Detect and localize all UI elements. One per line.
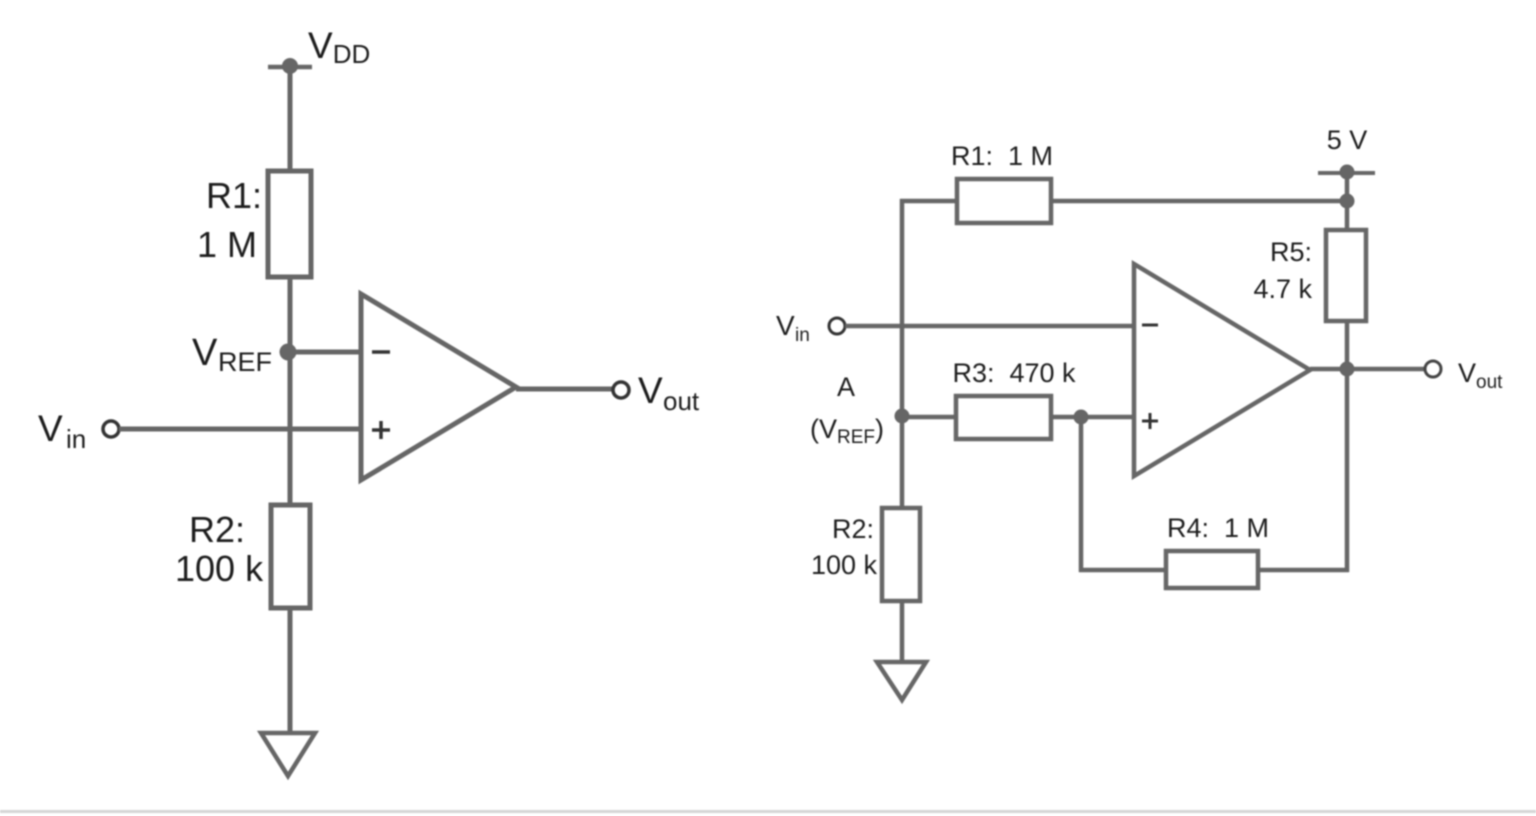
- terminal Vin: [829, 318, 845, 334]
- wire R2 to ground: [900, 601, 905, 663]
- wire node A to R3: [902, 415, 956, 420]
- wire R4 right to output branch: [1258, 568, 1349, 573]
- svg-text:V: V: [638, 370, 663, 411]
- svg-text:in: in: [66, 424, 86, 454]
- svg-text:R2:: R2:: [832, 514, 874, 544]
- op-amp U2: [1134, 264, 1310, 476]
- power 5V symbol: [1318, 165, 1375, 180]
- node A junction dot: [895, 409, 910, 424]
- resistor R5: [1326, 230, 1366, 321]
- wire VREF to op-amp inverting input: [288, 350, 363, 355]
- wire Vin to op-amp inverting input: [845, 324, 1134, 329]
- wire junction down to R4 level: [1079, 417, 1084, 572]
- pin label minus U1: [372, 350, 390, 354]
- wire to R4 left: [1079, 568, 1166, 573]
- op-amp U1: [361, 294, 516, 480]
- wire R1 right to 5V junction: [1051, 199, 1347, 204]
- wire op-amp output to Vout: [1310, 367, 1425, 372]
- wire to R1 left: [900, 199, 957, 204]
- resistor R2: [882, 508, 920, 601]
- resistor R2: [271, 505, 310, 608]
- wire R3 to op-amp non-inverting input: [1051, 415, 1134, 420]
- bottom separator line: [0, 810, 1536, 813]
- svg-text:V: V: [1458, 358, 1476, 388]
- svg-text:in: in: [795, 325, 810, 346]
- svg-text:V: V: [776, 310, 795, 341]
- terminal Vout: [1425, 361, 1441, 377]
- svg-text:R5:: R5:: [1270, 237, 1312, 267]
- resistor R3: [956, 396, 1051, 439]
- ground: [261, 733, 315, 776]
- terminal Vout: [613, 382, 629, 398]
- svg-text:V: V: [38, 408, 63, 449]
- wire left vertical Vin branch: [900, 199, 905, 509]
- svg-text:V: V: [192, 332, 218, 374]
- node VREF junction dot: [280, 344, 297, 361]
- svg-text:R2:: R2:: [189, 509, 245, 550]
- svg-text:R3: 470 k: R3: 470 k: [952, 358, 1076, 388]
- wire R5 to output junction to R4 corner: [1345, 321, 1350, 572]
- pin label plus U1: [372, 421, 390, 439]
- resistor R1: [957, 179, 1051, 223]
- power VDD symbol: [268, 58, 312, 74]
- wire Vin to op-amp non-inverting input: [119, 427, 363, 432]
- svg-text:100 k: 100 k: [175, 548, 264, 589]
- svg-text:5 V: 5 V: [1327, 125, 1368, 155]
- svg-text:out: out: [663, 386, 700, 416]
- svg-text:R4: 1 M: R4: 1 M: [1167, 513, 1269, 543]
- terminal Vin: [103, 421, 119, 437]
- svg-text:100 k: 100 k: [811, 550, 878, 580]
- svg-text:1 M: 1 M: [197, 224, 257, 265]
- svg-text:R1:: R1:: [206, 175, 262, 216]
- svg-text:REF: REF: [218, 347, 272, 377]
- junction dot output node: [1340, 362, 1355, 377]
- wire R1 to R2: [288, 277, 293, 507]
- svg-text:R1: 1 M: R1: 1 M: [951, 141, 1053, 171]
- junction dot R3/R4: [1074, 410, 1089, 425]
- pin label plus U2: [1142, 413, 1158, 429]
- resistor R4: [1166, 551, 1258, 588]
- wire op-amp output to Vout: [516, 387, 612, 392]
- svg-text:out: out: [1476, 372, 1503, 393]
- svg-text:A: A: [837, 372, 855, 402]
- ground: [877, 662, 926, 700]
- wire VDD to R1: [288, 67, 293, 173]
- wire 5V to R5: [1345, 173, 1350, 232]
- junction dot R1/5V: [1340, 194, 1355, 209]
- pin label minus U2: [1142, 324, 1158, 327]
- wire R2 to ground: [288, 608, 293, 734]
- resistor R1: [268, 171, 311, 277]
- svg-text:4.7 k: 4.7 k: [1253, 274, 1312, 304]
